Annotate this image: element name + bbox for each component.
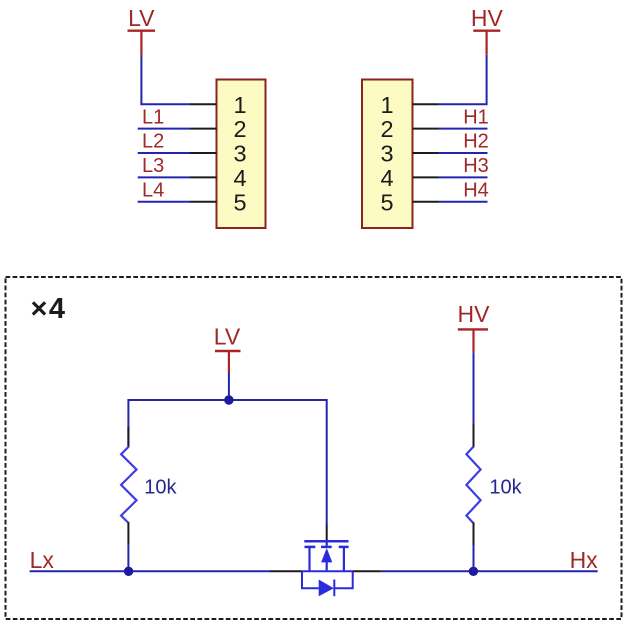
- pin stub J2-3: [413, 152, 439, 154]
- wire HV to R2: [473, 353, 475, 424]
- wire LV to connector pin 1 (left): [141, 55, 190, 104]
- svg-text:1: 1: [233, 92, 246, 118]
- pin stub J1-3: [190, 152, 217, 154]
- wire rail through Q1: [302, 570, 354, 572]
- svg-text:2: 2: [380, 116, 393, 142]
- transistor Q1 source pin stub: [270, 570, 302, 572]
- svg-text:1: 1: [380, 92, 393, 118]
- power symbol HV (cell): [458, 301, 491, 353]
- svg-text:5: 5: [380, 189, 393, 215]
- transistor Q1 drain pin stub: [353, 570, 381, 572]
- svg-text:10k: 10k: [144, 477, 177, 499]
- wire R1 to Lx rail: [127, 545, 129, 572]
- wire HV to connector pin 1 (right): [439, 55, 487, 104]
- pin stub J1-4: [190, 176, 217, 178]
- svg-text:HV: HV: [458, 301, 491, 327]
- svg-text:Hx: Hx: [570, 547, 599, 573]
- wire net H3: [439, 176, 488, 178]
- resistor R2 pin 2 stub: [473, 522, 475, 545]
- pin stub J1-2: [190, 128, 217, 130]
- svg-text:L4: L4: [142, 180, 164, 202]
- wire LV horizontal (R1 top to Q1 gate): [128, 400, 326, 525]
- pin stub J2-5: [413, 201, 439, 203]
- body diode D1 of Q1: [302, 571, 353, 596]
- wire rail Hx (right): [381, 570, 598, 572]
- junction Hx / R2: [469, 567, 478, 576]
- svg-text:4: 4: [380, 165, 393, 191]
- svg-text:H4: H4: [463, 180, 489, 202]
- pin stub J1-5: [190, 201, 217, 203]
- junction Lx / R1: [124, 567, 133, 576]
- resistor R1 pin 2 stub: [127, 522, 129, 544]
- svg-text:H3: H3: [463, 155, 489, 177]
- svg-text:L1: L1: [142, 106, 164, 128]
- svg-text:×4: ×4: [31, 293, 67, 325]
- wire net L3: [138, 176, 190, 178]
- wire net L4: [138, 201, 190, 203]
- wire net L1: [138, 128, 190, 130]
- wire rail Lx (left): [30, 570, 270, 572]
- svg-text:H2: H2: [463, 131, 489, 153]
- svg-text:2: 2: [233, 116, 246, 142]
- svg-text:L2: L2: [142, 131, 164, 153]
- pin stub J1-1: [190, 103, 217, 105]
- svg-text:Lx: Lx: [30, 547, 55, 573]
- svg-text:HV: HV: [471, 5, 504, 31]
- pin stub J2-1: [413, 103, 439, 105]
- svg-text:3: 3: [380, 141, 393, 167]
- wire R2 to Hx rail: [473, 545, 475, 571]
- resistor R2 (10k pull-up to HV): [466, 447, 480, 524]
- pin stub J2-2: [413, 128, 439, 130]
- wire net L2: [138, 152, 190, 154]
- dashed enclosure (x4 cell): [6, 277, 622, 619]
- wire net H2: [439, 152, 488, 154]
- resistor R2 pin 1 stub: [473, 424, 475, 448]
- svg-text:H1: H1: [463, 106, 489, 128]
- svg-text:LV: LV: [128, 5, 155, 31]
- wire net H1: [439, 128, 488, 130]
- svg-text:LV: LV: [214, 324, 241, 350]
- svg-text:5: 5: [233, 189, 246, 215]
- resistor R1 (10k pull-up to LV): [121, 447, 136, 524]
- junction LV node: [224, 395, 233, 404]
- transistor Q1 (N-channel MOSFET): [304, 541, 348, 571]
- svg-text:3: 3: [233, 141, 246, 167]
- connector J1 (LV side): [217, 80, 266, 229]
- svg-text:L3: L3: [142, 155, 164, 177]
- power symbol LV (cell): [214, 324, 241, 373]
- pin stub J2-4: [413, 176, 439, 178]
- transistor Q1 gate pin stub: [326, 525, 328, 541]
- wire LV vertical drop (cell): [228, 373, 230, 401]
- power symbol LV (top-left): [128, 5, 156, 55]
- svg-text:10k: 10k: [489, 477, 522, 499]
- svg-text:4: 4: [233, 165, 246, 191]
- resistor R1 pin 1 stub: [127, 427, 129, 448]
- wire net H4: [439, 201, 488, 203]
- power symbol HV (top-right): [471, 5, 504, 55]
- connector J2 (HV side): [362, 80, 413, 229]
